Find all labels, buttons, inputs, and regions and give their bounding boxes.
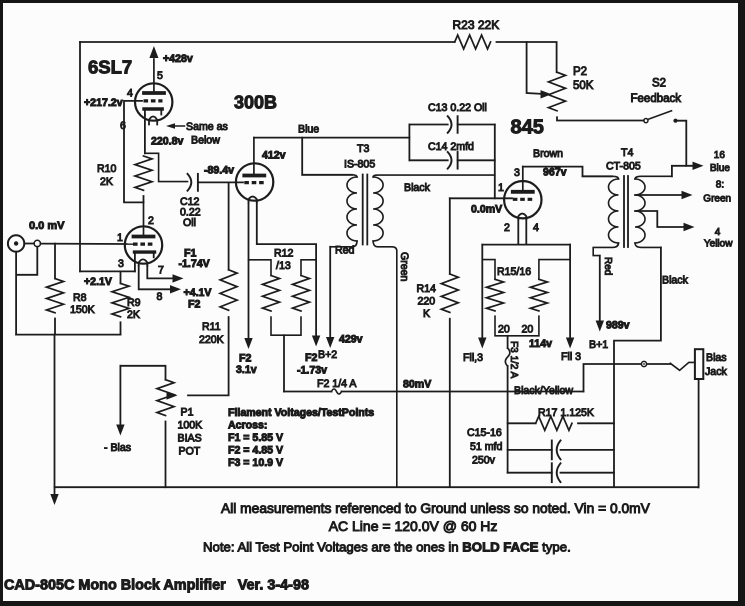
svg-text:Blue: Blue <box>710 163 730 174</box>
wire P2 wiper feed <box>527 42 541 94</box>
svg-text:6: 6 <box>120 120 126 132</box>
svg-text:20: 20 <box>522 324 534 336</box>
svg-text:50K: 50K <box>573 80 594 92</box>
svg-text:429v: 429v <box>339 334 363 346</box>
resistor R16 <box>539 260 570 280</box>
wire C15 C16 left edge <box>507 392 509 473</box>
resistor R8 <box>54 244 56 279</box>
tube V1b tent <box>139 259 148 266</box>
svg-text:Black/Yellow: Black/Yellow <box>514 385 573 397</box>
svg-text:220.8v: 220.8v <box>151 136 184 148</box>
svg-text:967v: 967v <box>543 167 567 179</box>
svg-text:114v: 114v <box>529 338 552 350</box>
wire pin7 F1 test point <box>147 263 172 278</box>
svg-text:R8: R8 <box>73 292 87 304</box>
svg-text:7: 7 <box>158 265 164 277</box>
svg-text:F2 1/4 A: F2 1/4 A <box>317 378 357 390</box>
svg-text:2: 2 <box>504 222 510 234</box>
svg-text:100K: 100K <box>178 420 203 432</box>
svg-text:+2.1V: +2.1V <box>84 276 112 288</box>
svg-text:3.1v: 3.1v <box>236 364 257 376</box>
svg-text:CT-805: CT-805 <box>606 161 641 173</box>
wire 845 plate 967v <box>523 167 612 177</box>
wire 16 Blue tap <box>672 166 693 177</box>
wire 300B fil left F2 test <box>248 203 250 340</box>
svg-text:Green: Green <box>703 194 731 205</box>
transformer T4 primary <box>583 176 619 179</box>
svg-text:IS-805: IS-805 <box>344 159 375 171</box>
tube V1a grid <box>144 99 163 102</box>
wire T4 black lead <box>614 247 661 487</box>
svg-text:R9: R9 <box>127 297 141 309</box>
svg-text:All measurements referenced to: All measurements referenced to Ground un… <box>221 501 651 516</box>
tube V1a tent <box>149 117 157 125</box>
svg-text:Black: Black <box>662 275 689 287</box>
wire P2 bottom to S2 <box>557 117 644 120</box>
wire V1a cathode lead <box>144 115 146 154</box>
wire feedback loop left vertical <box>79 42 81 271</box>
svg-text:1: 1 <box>498 182 504 194</box>
svg-text:+217.2v: +217.2v <box>84 97 123 109</box>
tube V1a 6SL7 upper <box>135 83 172 120</box>
tube U3 grid <box>513 198 533 201</box>
tube V1b grid <box>133 243 154 246</box>
wire V1a grid to V1b plate <box>124 101 144 202</box>
tube U2 filament tent <box>249 197 257 203</box>
wire 300B fil right <box>257 203 316 338</box>
capacitor C13 <box>409 124 447 126</box>
svg-text:Black: Black <box>404 182 431 194</box>
wire 300B plate Blue <box>254 137 410 139</box>
switch S2 <box>644 119 648 123</box>
svg-text:/13: /13 <box>276 260 291 272</box>
wire 845 grid line <box>450 197 512 199</box>
resistor R23 <box>455 35 491 49</box>
resistor R12 <box>249 260 272 276</box>
svg-text:300B: 300B <box>234 93 277 113</box>
svg-text:P1: P1 <box>181 407 194 419</box>
svg-text:R15/16: R15/16 <box>497 266 531 278</box>
wire pin8 F2 test point <box>139 266 174 289</box>
svg-text:1: 1 <box>117 232 123 244</box>
svg-text:Red: Red <box>602 257 613 275</box>
svg-text:4: 4 <box>127 88 133 100</box>
wire ground rail <box>55 486 699 488</box>
potentiometer P1 <box>120 366 165 380</box>
svg-text:Oil: Oil <box>183 217 196 229</box>
input jack J1 <box>8 235 24 251</box>
wire filament rail 80mV <box>284 391 332 393</box>
svg-text:R12: R12 <box>274 248 294 260</box>
svg-text:4: 4 <box>715 227 721 238</box>
svg-text:F2: F2 <box>239 353 251 365</box>
wire V1b cathode horizontal +2.1V <box>80 270 135 272</box>
wire C13 C14 right edge <box>494 125 496 199</box>
svg-text:0.0mV: 0.0mV <box>471 204 502 216</box>
svg-text:-1.74V: -1.74V <box>179 258 210 270</box>
svg-text:Blue: Blue <box>298 124 319 136</box>
svg-text:20: 20 <box>498 324 510 336</box>
potentiometer P2 <box>549 72 566 111</box>
svg-text:F2: F2 <box>188 299 200 311</box>
svg-text:4: 4 <box>533 222 539 234</box>
transformer T4 secondary <box>635 176 672 179</box>
svg-text:P2: P2 <box>573 66 587 78</box>
resistor R17 <box>508 422 536 424</box>
svg-text:- Bias: - Bias <box>104 442 131 454</box>
wire ground drop <box>54 335 56 496</box>
wire C13 C14 left edge <box>408 125 410 161</box>
svg-text:80mV: 80mV <box>403 379 431 391</box>
wire S2 to output node <box>678 121 687 166</box>
svg-text:2K: 2K <box>127 309 140 321</box>
svg-text:8:: 8: <box>716 180 724 191</box>
tube U3 filament tent <box>518 214 526 220</box>
wire R12 R13 bottom <box>271 317 301 335</box>
transformer T3 core <box>362 175 364 245</box>
svg-text:F2 = 4.85 V: F2 = 4.85 V <box>228 445 283 457</box>
svg-text:BIAS: BIAS <box>178 433 202 445</box>
wire B+1 989v arrow <box>599 256 601 322</box>
svg-text:T3: T3 <box>357 143 369 155</box>
tube U3 plate <box>513 190 533 194</box>
transformer T3 primary <box>302 175 357 177</box>
svg-text:R10: R10 <box>97 163 117 175</box>
fuse F2 <box>332 389 342 394</box>
svg-text:250v: 250v <box>472 455 496 467</box>
capacitor C16 <box>508 472 552 474</box>
svg-text:S2: S2 <box>652 78 666 90</box>
tube U3 845 <box>504 181 541 218</box>
svg-text:B+2: B+2 <box>318 349 337 361</box>
svg-text:F3 1/2 A: F3 1/2 A <box>508 341 519 379</box>
svg-text:Filament Voltages/TestPoints: Filament Voltages/TestPoints <box>228 407 374 419</box>
tube V1b 6SL7 lower <box>125 226 162 263</box>
svg-text:+4.1V: +4.1V <box>184 287 212 299</box>
tube V1b cathode <box>135 250 155 253</box>
svg-text:16: 16 <box>714 150 726 161</box>
svg-text:-89.4v: -89.4v <box>204 165 234 177</box>
svg-text:0.0 mV: 0.0 mV <box>29 220 65 232</box>
svg-text:CAD-805C Mono Block Amplifier: CAD-805C Mono Block Amplifier Ver. 3-4-9… <box>4 578 309 594</box>
svg-text:Same as: Same as <box>186 121 228 133</box>
svg-text:Below: Below <box>191 135 220 147</box>
svg-text:C13 0.22 Oil: C13 0.22 Oil <box>428 102 487 114</box>
svg-text:R14: R14 <box>417 283 437 295</box>
svg-text:989v: 989v <box>606 320 630 332</box>
svg-text:C14 2mfd: C14 2mfd <box>428 141 474 153</box>
tube U2 300B <box>236 163 273 200</box>
svg-text:845: 845 <box>511 117 544 139</box>
svg-text:R11: R11 <box>202 321 221 333</box>
svg-text:3: 3 <box>118 258 124 270</box>
wire B+2 429v arrow <box>329 247 331 339</box>
wire R23 to P2 top <box>497 42 557 72</box>
svg-text:220: 220 <box>418 296 436 308</box>
resistor R11 <box>228 182 230 269</box>
note same as below <box>166 123 175 129</box>
svg-text:Fil 3: Fil 3 <box>561 351 581 363</box>
wire 4 Yellow tap <box>635 211 684 227</box>
capacitor C15 <box>508 449 552 451</box>
wire +428v supply arrow <box>153 59 155 92</box>
wire 845 fil bus <box>482 244 570 246</box>
svg-text:F3 = 10.9 V: F3 = 10.9 V <box>228 457 283 469</box>
tube V1a cathode <box>144 107 162 110</box>
wire V1b cathode to R9 <box>134 252 136 271</box>
wire top feedback rail <box>80 41 455 43</box>
svg-text:150K: 150K <box>70 304 95 316</box>
resistor R9 <box>120 271 122 283</box>
tube V1a plate <box>144 91 164 95</box>
wire Fil3 right arrow <box>569 245 571 339</box>
wire R15 R16 bottom box <box>495 316 539 336</box>
svg-text:Fil,3: Fil,3 <box>463 352 483 364</box>
svg-text:+428v: +428v <box>163 53 193 65</box>
svg-text:8: 8 <box>157 291 163 303</box>
tube V1b plate <box>134 235 154 239</box>
svg-text:AC Line = 120.0V @ 60 Hz: AC Line = 120.0V @ 60 Hz <box>329 518 498 534</box>
resistor R14 <box>449 198 451 274</box>
svg-text:Red: Red <box>335 245 355 257</box>
resistor R15 <box>482 260 495 280</box>
wire bias jack return <box>698 379 700 487</box>
wire R8 R9 bottom rail <box>16 334 120 336</box>
wire 8 Green tap <box>635 194 682 196</box>
wire C12 to 300B grid <box>198 181 243 183</box>
wire T3 primary feed <box>302 138 352 175</box>
svg-text:5: 5 <box>157 70 163 82</box>
wire bias row <box>584 364 642 392</box>
wire jack ground vertical <box>15 252 17 335</box>
wire Fil3 left arrow <box>481 245 483 339</box>
bias jack <box>695 349 703 379</box>
svg-text:Jack: Jack <box>705 366 727 378</box>
svg-text:Bias: Bias <box>706 352 727 364</box>
tube U2 plate <box>244 174 264 178</box>
svg-text:Green: Green <box>398 252 410 282</box>
fuse F3 <box>507 336 509 348</box>
transformer T4 core <box>623 176 625 247</box>
svg-text:F1 = 5.85 V: F1 = 5.85 V <box>228 432 283 444</box>
svg-text:3: 3 <box>514 167 520 179</box>
svg-text:POT: POT <box>179 446 201 458</box>
wire input ground step <box>17 247 38 275</box>
wire minus bias arrow <box>119 366 121 426</box>
svg-text:-1.73v: -1.73v <box>297 365 327 377</box>
resistor R13 <box>301 260 316 276</box>
svg-text:B+1: B+1 <box>589 339 608 351</box>
svg-text:R23 22K: R23 22K <box>453 18 500 32</box>
svg-text:K: K <box>423 308 430 320</box>
svg-text:220K: 220K <box>199 334 224 346</box>
transformer T3 secondary <box>373 175 495 177</box>
svg-text:Feedback: Feedback <box>631 93 682 105</box>
svg-text:Across:: Across: <box>228 420 267 432</box>
svg-text:2: 2 <box>148 215 154 227</box>
capacitor C14 <box>409 159 447 161</box>
svg-text:Brown: Brown <box>533 148 563 160</box>
wire 845 fil leads <box>517 220 519 245</box>
svg-text:Note: All Test Point Voltages: Note: All Test Point Voltages are the on… <box>203 540 571 555</box>
svg-text:F2: F2 <box>305 352 317 364</box>
svg-text:2K: 2K <box>100 176 113 188</box>
svg-text:51 mfd: 51 mfd <box>470 441 502 453</box>
wire input to V1b grid <box>41 243 134 245</box>
svg-text:T4: T4 <box>621 147 633 159</box>
tube U2 grid <box>244 181 264 184</box>
resistor R10 <box>145 153 188 181</box>
svg-text:C15-16: C15-16 <box>467 427 502 439</box>
svg-text:6SL7: 6SL7 <box>88 57 132 78</box>
bias jack contact <box>641 361 646 366</box>
svg-text:R17 1.125K: R17 1.125K <box>538 407 594 419</box>
svg-text:412v: 412v <box>262 150 286 162</box>
svg-text:Yellow: Yellow <box>704 239 733 250</box>
capacitor C12 <box>188 174 192 191</box>
